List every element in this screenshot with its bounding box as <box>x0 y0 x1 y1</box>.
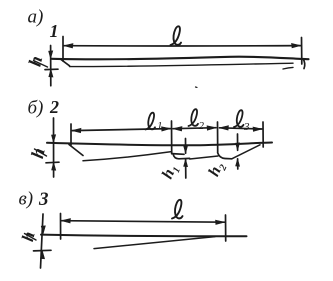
label l (part a) <box>171 26 182 45</box>
body top line (part b) <box>47 143 272 146</box>
h2 dimension lower (part b) <box>237 159 239 169</box>
dimension line l3 (part b) <box>220 128 263 129</box>
wedge left tip diagonal (part b) <box>69 145 83 156</box>
bottom slant line (part v) <box>94 237 215 249</box>
dimension line l (part v) <box>62 221 225 223</box>
label h (part v) <box>18 230 39 244</box>
h bottom tick (part a) <box>45 68 58 70</box>
body top line (part v) <box>41 235 247 237</box>
label h (part b) <box>27 146 49 160</box>
dimension line l2 (part b) <box>173 128 216 129</box>
svg-text:1: 1 <box>50 21 59 41</box>
flourish under h (part v) <box>25 234 37 241</box>
svg-text:2: 2 <box>49 97 59 117</box>
svg-text:а): а) <box>28 7 44 28</box>
label h2 (part b) <box>206 159 230 180</box>
h bottom tick (part v) <box>34 249 52 252</box>
extension line left (part a) <box>62 37 64 62</box>
svg-text:3: 3 <box>243 121 250 133</box>
flourish under h (part b) <box>35 149 47 156</box>
notch 2 curve (part b) <box>218 153 232 159</box>
h2 dimension upper (part b) <box>237 134 239 150</box>
svg-text:в): в) <box>19 189 34 210</box>
extension line l left (part v) <box>60 214 62 240</box>
notch 1 curve (part b) <box>172 153 184 156</box>
label h (part a) <box>24 54 46 68</box>
bottom slant segment 3 (part b) <box>232 145 260 159</box>
label l3 (part b) <box>234 110 244 127</box>
svg-text:h: h <box>18 230 39 244</box>
h1 dimension lower (part b) <box>185 159 187 178</box>
bottom slant segment 1 (part b) <box>83 152 171 161</box>
extension line right (part a) <box>301 38 303 65</box>
extension line l3 right (part b) <box>262 122 264 147</box>
body top line (part a) <box>52 57 309 60</box>
label l (part v) <box>172 200 183 219</box>
svg-text:2: 2 <box>199 120 205 132</box>
body bottom line (part a) <box>70 63 294 66</box>
h bottom tick (part b) <box>46 161 59 164</box>
extension line l1 left (part b) <box>70 124 72 145</box>
extension line l right (part v) <box>225 215 227 241</box>
short dash right (part a) <box>283 67 293 69</box>
label h1 (part b) <box>159 162 183 183</box>
h dimension line vertical (part a) <box>50 46 52 86</box>
dimension line l1 (part b) <box>72 129 171 131</box>
flourish under h (part a) <box>34 61 48 68</box>
step edge 1 / extension (part b) <box>171 121 173 154</box>
label l2 (part b) <box>189 109 199 126</box>
h dimension vertical (part b left) <box>53 118 55 177</box>
svg-text:3: 3 <box>38 189 49 210</box>
bottom slant segment 2 (part b) <box>190 156 218 159</box>
svg-text:б): б) <box>28 98 44 119</box>
label l1 (part b) <box>146 113 156 130</box>
h1 dimension upper (part b) <box>185 139 187 154</box>
body left tip diagonal (part a) <box>61 60 70 66</box>
svg-text:h: h <box>27 146 49 160</box>
dimension line l (part a) <box>64 45 301 47</box>
right end hook (part a) <box>303 59 305 69</box>
step edge 2 / extension (part b) <box>217 122 219 153</box>
svg-text:1: 1 <box>157 120 163 132</box>
h dimension vertical (part v) <box>41 214 44 268</box>
